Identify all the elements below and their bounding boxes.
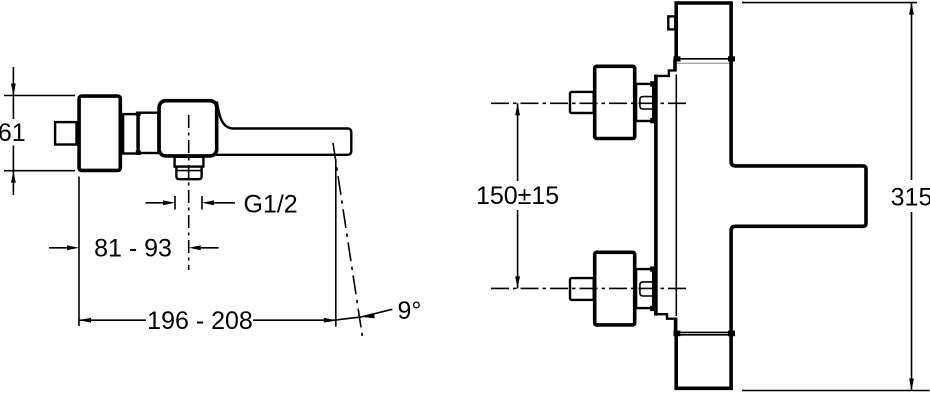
body right edge and spout arm outline	[731, 59, 866, 333]
outlet lower collar	[176, 167, 201, 180]
bottom joint line	[676, 331, 731, 333]
svg-text:9°: 9°	[398, 297, 422, 325]
dimension 61 top extension line	[4, 95, 75, 97]
faceplate bottom edge	[654, 314, 676, 319]
315 dim line upper segment	[911, 3, 913, 180]
dimension 150±15 line lower segment	[517, 210, 519, 288]
196-208 dim line right segment	[253, 319, 336, 321]
81-93 right arrowhead	[189, 245, 201, 250]
196-208 dim line left segment	[79, 319, 146, 321]
tab on top block	[668, 16, 675, 29]
bottom joint tick right	[728, 331, 735, 337]
top handle knob	[570, 92, 594, 113]
escutcheon (wall flange)	[79, 96, 120, 170]
196-208 right arrowhead	[324, 318, 336, 323]
G1/2 left arrowhead	[163, 200, 175, 205]
top adapter junction dot upper	[650, 81, 656, 86]
dimension 81-93 left extension line	[78, 177, 80, 327]
bottom block	[676, 335, 731, 389]
bottom handle block	[595, 252, 635, 325]
9 degree arrowhead	[362, 313, 375, 318]
top handle block	[595, 66, 635, 138]
faceplate top edge	[654, 70, 676, 76]
junction dot bottom of divider	[136, 151, 141, 156]
81-93 left arrow line	[49, 247, 68, 249]
top joint tick right	[728, 56, 735, 61]
junction dot top of divider	[136, 112, 141, 117]
315 up arrowhead	[909, 3, 914, 15]
G1/2 right arrow line	[213, 202, 235, 204]
315 dim line lower segment	[911, 212, 913, 391]
9 degree arc	[327, 317, 362, 321]
G1/2 right tick	[201, 196, 203, 210]
connector piece A	[123, 114, 138, 153]
arrow down at 61 top	[11, 84, 16, 96]
bottom handle knob	[570, 278, 594, 300]
connector piece B	[138, 113, 159, 153]
150±15 down arrowhead	[515, 276, 520, 288]
outlet upper piece	[175, 157, 204, 167]
dimension 315 top extension line	[742, 2, 917, 4]
body left edge lower thick segment	[674, 318, 678, 334]
svg-text:315: 315	[891, 184, 930, 212]
81-93 right arrow line	[201, 247, 219, 249]
9 degree leader line	[362, 309, 393, 317]
bottom joint second line	[676, 334, 731, 336]
dimension 150±15 line upper segment	[517, 103, 519, 181]
wall connector knob	[55, 122, 76, 144]
top joint faint lower line	[677, 62, 730, 64]
G1/2 left tick	[174, 196, 176, 210]
body left edge thin line	[675, 75, 677, 317]
dimension 61 bottom extension line	[4, 170, 75, 172]
faceplate left edge	[654, 75, 658, 316]
bottom handle centerline (dash-dot)	[491, 287, 689, 289]
arrow up at 61 bottom	[11, 171, 16, 183]
svg-text:G1/2: G1/2	[244, 191, 298, 219]
svg-text:61: 61	[0, 119, 26, 147]
divider line between piece A and B	[137, 113, 140, 154]
svg-text:81 - 93: 81 - 93	[94, 235, 172, 263]
315 down arrowhead	[909, 379, 914, 391]
top joint tick left	[674, 56, 681, 61]
top shower block	[676, 3, 731, 59]
G1/2 left arrow line	[146, 202, 165, 204]
81-93 left arrowhead	[67, 245, 79, 250]
bottom joint tick left	[674, 331, 681, 337]
centerline of outlet (dash-dot)	[188, 115, 190, 270]
G1/2 right arrowhead	[202, 200, 214, 205]
top joint line	[676, 58, 731, 60]
bottom adapter junction dot lower	[650, 306, 656, 311]
196-208 left arrowhead	[79, 318, 91, 323]
dimension 315 bottom extension line	[742, 390, 930, 392]
svg-text:196 - 208: 196 - 208	[147, 307, 253, 335]
top adapter inner piece	[640, 97, 653, 109]
150±15 up arrowhead	[515, 103, 520, 115]
dimension 196-208 right extension line	[335, 159, 337, 327]
bottom handle adapter	[636, 269, 653, 308]
dimension 61 line lower segment	[12, 146, 14, 196]
9 degree tilted dashed line	[333, 143, 362, 336]
dimension 61 line upper segment	[12, 67, 14, 119]
bottom adapter junction dot upper	[650, 266, 656, 271]
top handle adapter	[636, 84, 653, 121]
mixer body	[159, 101, 217, 156]
top adapter junction dot lower	[650, 118, 656, 123]
outlet inner line	[176, 170, 201, 172]
spout outline	[216, 102, 351, 155]
body left edge upper thick segment	[673, 59, 677, 72]
top handle centerline (dash-dot)	[491, 102, 689, 104]
svg-text:150±15: 150±15	[476, 182, 559, 210]
bottom adapter inner piece	[640, 282, 653, 296]
